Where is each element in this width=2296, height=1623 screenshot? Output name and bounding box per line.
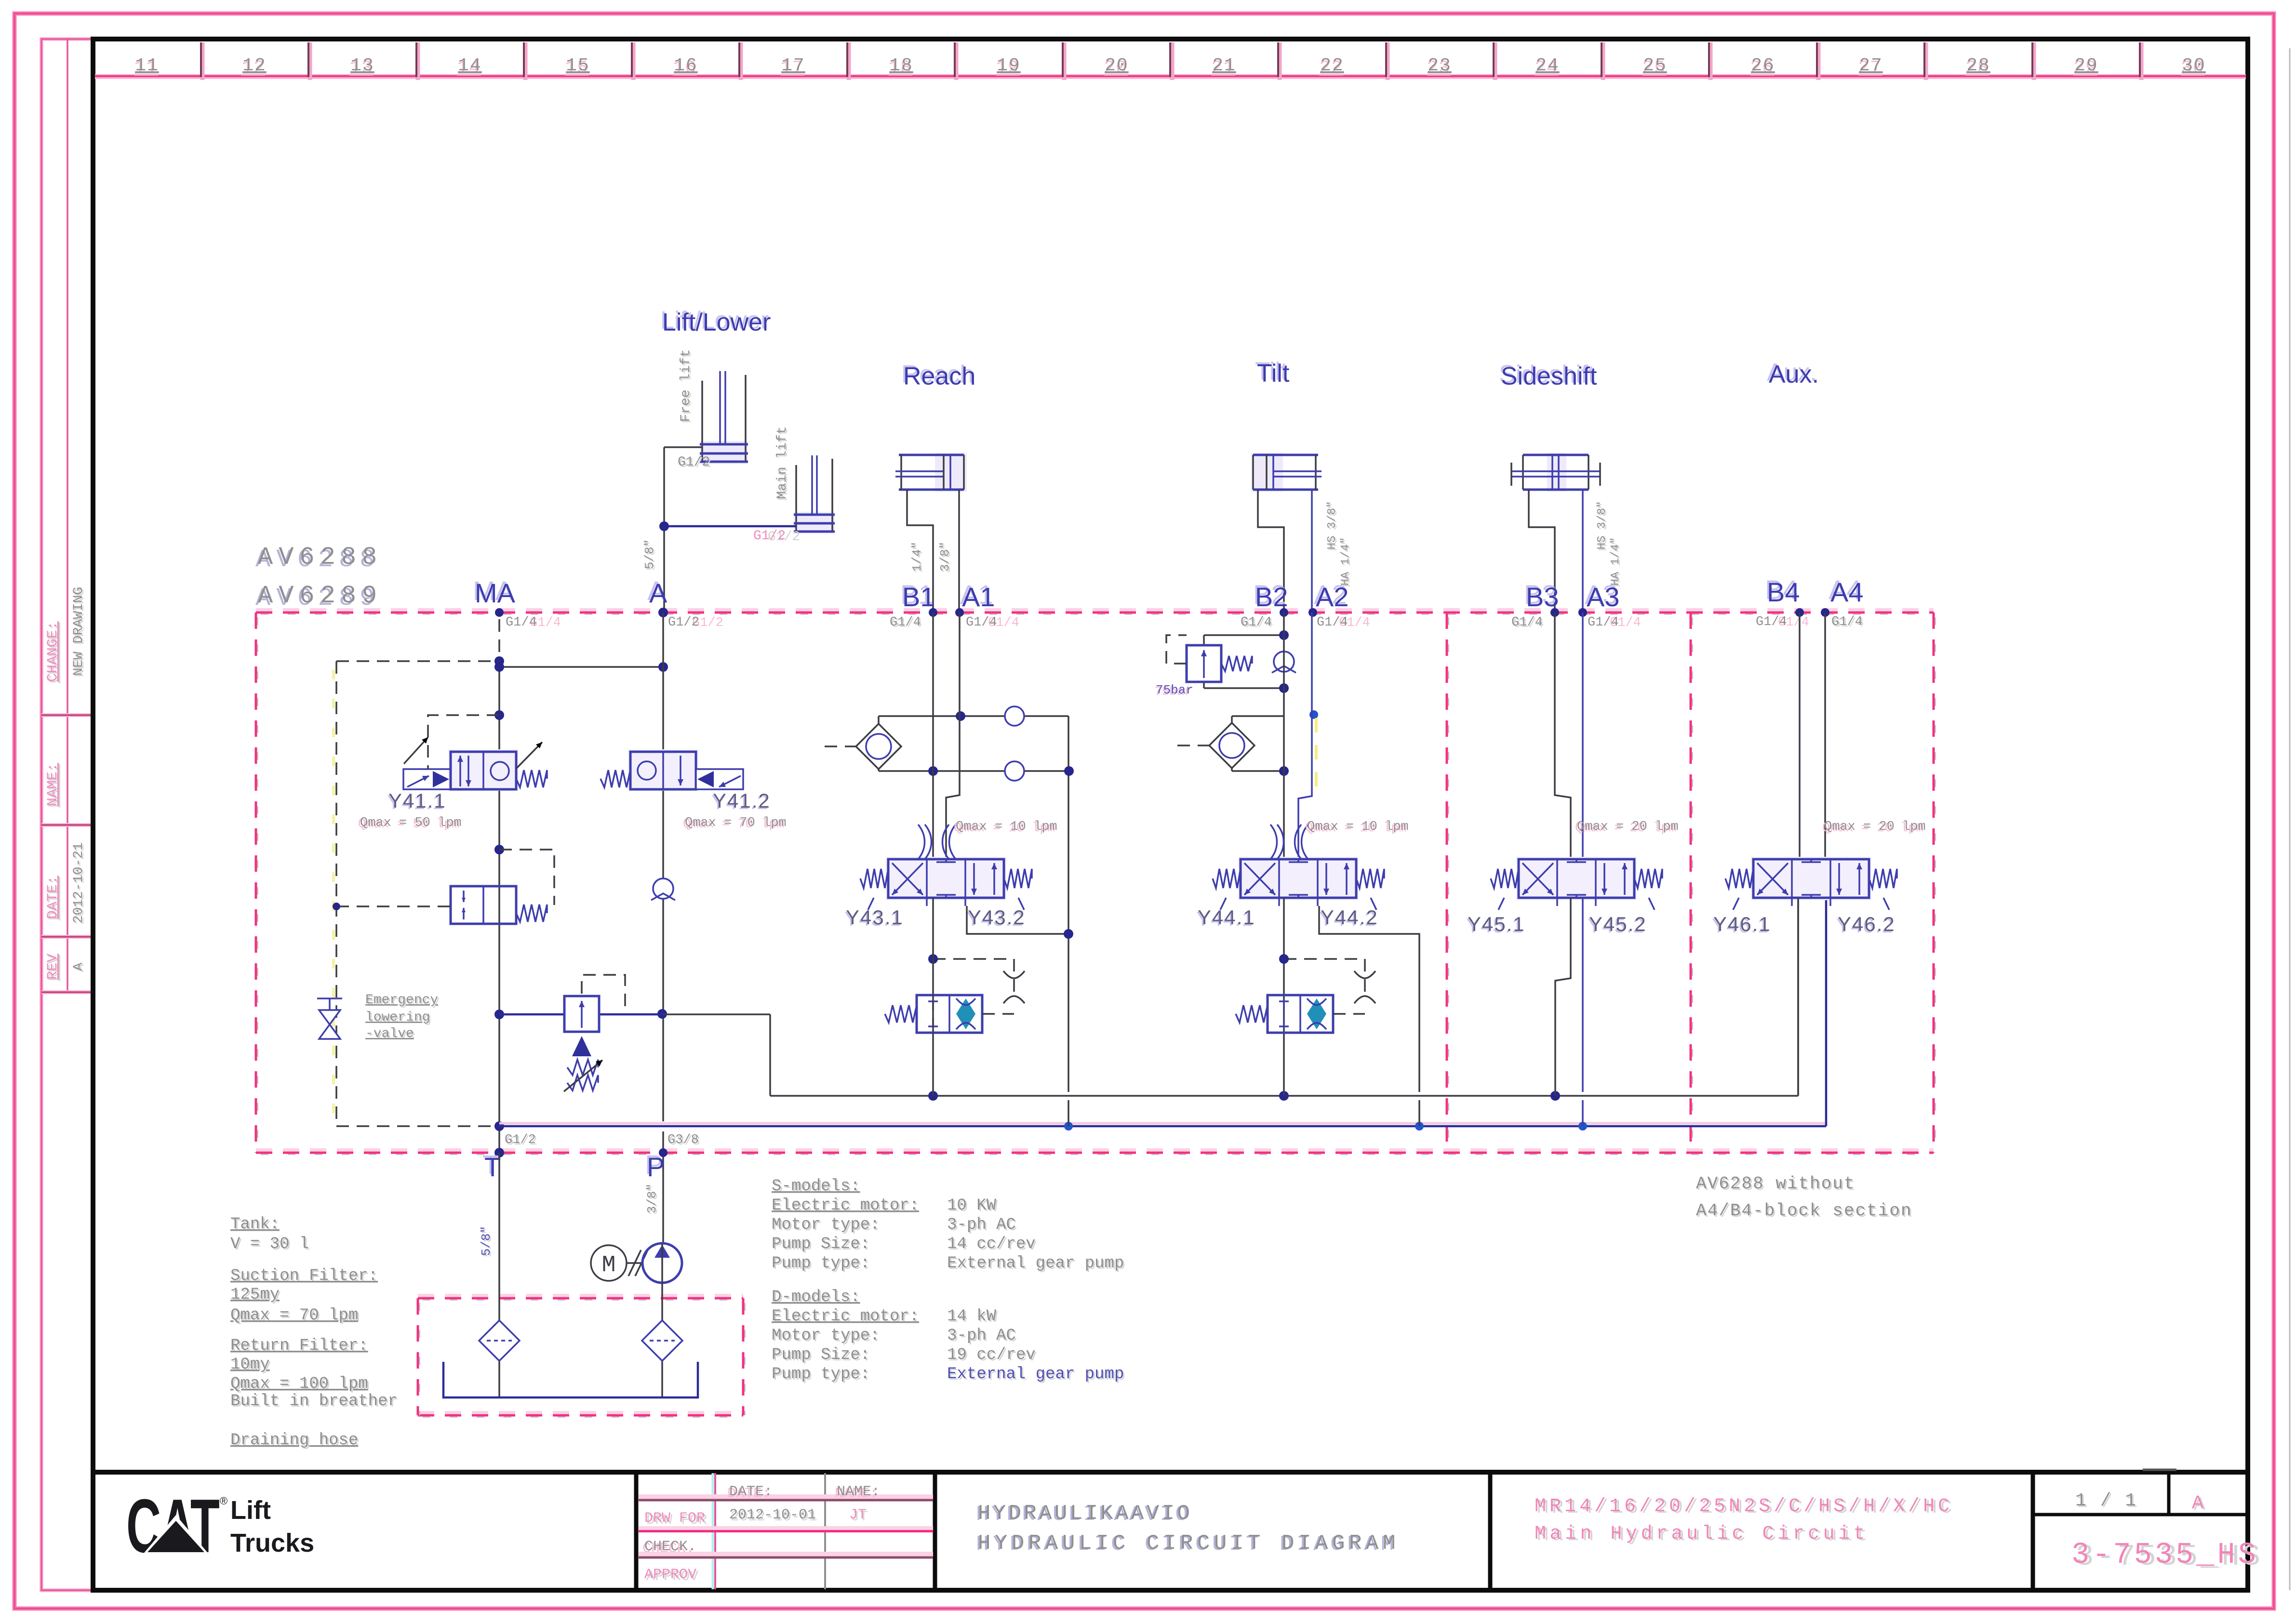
svg-text:JT: JT — [849, 1507, 867, 1523]
reach cylinder — [895, 453, 967, 492]
svg-text:Lift/Lower: Lift/Lower — [662, 308, 771, 336]
svg-text:Qmax = 20 lpm: Qmax = 20 lpm — [1577, 820, 1679, 834]
svg-text:28: 28 — [1966, 55, 1990, 76]
pressure compensator under Y41.1 — [451, 886, 547, 924]
svg-text:19 cc/rev: 19 cc/rev — [947, 1346, 1036, 1364]
svg-text:Pump Size:: Pump Size: — [772, 1235, 870, 1253]
emergency lowering valve (manual) — [317, 998, 342, 1039]
svg-text:26: 26 — [1751, 55, 1775, 76]
svg-text:APPROV: APPROV — [644, 1567, 696, 1583]
svg-text:B2: B2 — [1255, 582, 1288, 612]
sideshift cylinder (double rod) — [1511, 453, 1600, 492]
svg-text:21: 21 — [1212, 55, 1236, 76]
svg-text:G1/4: G1/4 — [506, 615, 537, 630]
title block table — [639, 1473, 933, 1589]
svg-text:3-7535_HS: 3-7535_HS — [2071, 1538, 2259, 1572]
tilt relief 75bar + check — [1166, 630, 1296, 693]
S-models spec text — [772, 1177, 1125, 1274]
svg-text:G1/2: G1/2 — [753, 529, 786, 544]
port thread labels G1/4 G1/2 row — [506, 615, 1864, 631]
svg-text:3/8": 3/8" — [938, 542, 952, 572]
svg-text:Sideshift: Sideshift — [1501, 362, 1597, 390]
reach bridge wires with orifices — [879, 706, 1074, 1126]
svg-text:5/8": 5/8" — [479, 1226, 494, 1256]
svg-text:14: 14 — [458, 55, 482, 76]
svg-text:Electric motor:: Electric motor: — [772, 1307, 919, 1326]
tilt bridge wires — [1232, 710, 1318, 776]
svg-text:3/8": 3/8" — [645, 1184, 659, 1213]
inner dashed box emergency lowering group — [334, 661, 499, 1126]
valve Y41.1 proportional lowering valve — [403, 737, 547, 791]
svg-text:Y43.1: Y43.1 — [846, 906, 904, 929]
electric motor M — [591, 1245, 627, 1281]
svg-text:A4: A4 — [1830, 577, 1864, 607]
svg-text:G3/8: G3/8 — [667, 1133, 699, 1147]
svg-text:Qmax = 20 lpm: Qmax = 20 lpm — [1824, 820, 1926, 834]
suction filter diamond — [479, 1320, 520, 1361]
svg-text:23: 23 — [1428, 55, 1452, 76]
wire MA riser / T line — [494, 608, 668, 1157]
svg-text:NEW DRAWING: NEW DRAWING — [71, 587, 86, 676]
wire B4 to valve — [1799, 612, 1801, 861]
tilt compensator pilot dashed + throttle — [1279, 954, 1375, 1014]
tilt cylinder — [1251, 453, 1322, 492]
tank symbol — [443, 1362, 698, 1397]
wire B4 valve to gallery (gallery end) — [1797, 898, 1799, 1096]
svg-text:Reach: Reach — [903, 362, 975, 390]
svg-text:NAME:: NAME: — [837, 1484, 880, 1500]
wire B3 valve to gallery — [1555, 898, 1571, 1096]
svg-text:A: A — [2192, 1493, 2203, 1515]
svg-text:A1: A1 — [962, 582, 995, 612]
svg-text:18: 18 — [889, 55, 913, 76]
svg-text:22: 22 — [1320, 55, 1344, 76]
title block frame — [93, 1470, 2248, 1590]
svg-text:3-ph AC: 3-ph AC — [947, 1327, 1016, 1345]
P line pump to tank — [661, 1283, 663, 1397]
svg-text:25: 25 — [1643, 55, 1667, 76]
svg-text:12: 12 — [242, 55, 267, 76]
svg-text:HYDRAULIC CIRCUIT DIAGRAM: HYDRAULIC CIRCUIT DIAGRAM — [978, 1531, 1400, 1556]
svg-text:®: ® — [220, 1495, 227, 1507]
svg-text:3-ph AC: 3-ph AC — [947, 1216, 1016, 1234]
wire B2 valve to gallery — [1283, 898, 1285, 1096]
svg-text:S-models:: S-models: — [772, 1177, 860, 1196]
D-models spec text — [772, 1288, 1125, 1385]
svg-text:2012-10-21: 2012-10-21 — [71, 842, 86, 923]
wire B1 to valve — [932, 612, 934, 861]
svg-text:B4: B4 — [1767, 577, 1800, 607]
svg-text:HA 1/4": HA 1/4" — [1339, 537, 1352, 586]
svg-text:30: 30 — [2182, 55, 2206, 76]
svg-text:T: T — [484, 1152, 501, 1182]
reach compensator pilot dashed + throttle — [928, 954, 1025, 1014]
svg-text:13: 13 — [350, 55, 374, 76]
svg-text:D-models:: D-models: — [772, 1288, 860, 1306]
tilt cylinder wires to B2 A2 — [1258, 490, 1312, 612]
svg-text:Qmax = 70 lpm: Qmax = 70 lpm — [685, 816, 787, 830]
svg-text:Trucks: Trucks — [230, 1529, 314, 1557]
wire A riser / P line — [657, 612, 667, 1243]
svg-text:NAME:: NAME: — [45, 763, 61, 806]
svg-text:G1/2: G1/2 — [505, 1133, 536, 1147]
wire A2 to valve — [1298, 612, 1312, 861]
T line into tank — [498, 1153, 500, 1397]
svg-text:Main lift: Main lift — [775, 426, 790, 499]
svg-text:11: 11 — [135, 55, 159, 76]
svg-text:External gear pump: External gear pump — [947, 1254, 1124, 1273]
valve Y46 aux directional valve — [1725, 857, 1897, 910]
svg-text:Y44.2: Y44.2 — [1321, 906, 1378, 929]
svg-text:15: 15 — [566, 55, 590, 76]
svg-text:HS 3/8": HS 3/8" — [1596, 501, 1609, 550]
svg-text:CHECK.: CHECK. — [644, 1539, 696, 1555]
svg-text:Built in breather: Built in breather — [230, 1392, 398, 1410]
svg-text:DATE:: DATE: — [729, 1484, 773, 1500]
svg-text:lowering: lowering — [365, 1010, 430, 1025]
svg-text:2012-10-01: 2012-10-01 — [729, 1507, 816, 1523]
svg-text:A4/B4-block section: A4/B4-block section — [1696, 1201, 1912, 1221]
reach valve drain to branch — [967, 906, 1068, 934]
svg-text:B3: B3 — [1526, 582, 1559, 612]
svg-text:Tank:: Tank: — [230, 1215, 280, 1234]
return filter diamond — [642, 1320, 682, 1361]
svg-text:B1: B1 — [902, 582, 935, 612]
svg-text:G1/4: G1/4 — [1756, 615, 1787, 629]
svg-text:HYDRAULIKAAVIO: HYDRAULIKAAVIO — [978, 1502, 1192, 1526]
svg-text:27: 27 — [1859, 55, 1883, 76]
svg-text:G1/4: G1/4 — [1241, 615, 1272, 630]
main relief valve — [499, 975, 770, 1096]
svg-text:A3: A3 — [1587, 582, 1620, 612]
valve Y41.2 solenoid bypass valve — [601, 749, 743, 791]
svg-text:24: 24 — [1535, 55, 1560, 76]
wire A3 to valve — [1582, 612, 1584, 861]
svg-text:Qmax = 70 lpm: Qmax = 70 lpm — [230, 1306, 358, 1325]
svg-text:Y44.1: Y44.1 — [1198, 906, 1255, 929]
svg-text:G1/4: G1/4 — [1317, 615, 1348, 630]
svg-text:G1/4: G1/4 — [1511, 615, 1543, 630]
svg-text:P: P — [647, 1152, 665, 1182]
svg-text:Y45.2: Y45.2 — [1589, 913, 1647, 935]
svg-text:Pump Size:: Pump Size: — [772, 1346, 870, 1364]
svg-text:Y46.1: Y46.1 — [1713, 913, 1771, 935]
svg-text:Free lift: Free lift — [679, 349, 694, 422]
svg-text:Pump type:: Pump type: — [772, 1365, 870, 1384]
svg-text:AV6288 without: AV6288 without — [1696, 1174, 1855, 1194]
reach compensator valve — [885, 995, 982, 1033]
svg-text:CHANGE:: CHANGE: — [45, 621, 61, 682]
svg-text:A: A — [71, 962, 86, 971]
svg-text:17: 17 — [781, 55, 805, 76]
free lift cylinder — [700, 371, 748, 464]
svg-text:Y41.1: Y41.1 — [388, 789, 446, 812]
svg-text:Qmax = 100 lpm: Qmax = 100 lpm — [230, 1375, 368, 1393]
compensator pilot dashed lines — [499, 850, 554, 905]
svg-text:External gear pump: External gear pump — [947, 1365, 1124, 1384]
svg-text:10 KW: 10 KW — [947, 1197, 997, 1215]
svg-text:Main Hydraulic Circuit: Main Hydraulic Circuit — [1535, 1523, 1869, 1545]
valve block dashed boundary box — [256, 610, 1935, 1154]
svg-text:Aux.: Aux. — [1769, 360, 1819, 388]
Y41.1 pilot dashed line — [428, 715, 499, 769]
valve Y45 sideshift directional valve — [1491, 857, 1662, 910]
main lift cylinder — [794, 455, 835, 533]
svg-text:20: 20 — [1105, 55, 1129, 76]
svg-text:1 / 1: 1 / 1 — [2075, 1490, 2137, 1511]
CAT Lift Trucks logo — [126, 1484, 314, 1569]
svg-text:Y43.2: Y43.2 — [968, 906, 1026, 929]
svg-text:Return Filter:: Return Filter: — [230, 1337, 368, 1355]
svg-text:M: M — [602, 1252, 616, 1278]
svg-text:HA 1/4": HA 1/4" — [1609, 537, 1622, 586]
tilt valve drain branch — [1319, 906, 1419, 1092]
svg-text:DRW FOR: DRW FOR — [644, 1510, 705, 1527]
svg-text:14 cc/rev: 14 cc/rev — [947, 1235, 1036, 1253]
svg-text:16: 16 — [674, 55, 698, 76]
check valve on P riser — [651, 878, 675, 900]
svg-text:Qmax = 10 lpm: Qmax = 10 lpm — [956, 820, 1057, 834]
pressure gallery (black) — [770, 899, 1798, 1101]
svg-text:Lift: Lift — [230, 1496, 271, 1525]
tank dashed boundary box — [418, 1295, 745, 1417]
svg-text:1/4": 1/4" — [910, 542, 924, 572]
svg-text:A2: A2 — [1316, 582, 1349, 612]
dashed divider before Aux section (AV6288 limit) — [1691, 612, 1693, 1153]
wire A3 valve to tank gallery — [1582, 898, 1584, 1092]
svg-text:Qmax = 10 lpm: Qmax = 10 lpm — [1307, 820, 1409, 834]
svg-text:5/8": 5/8" — [642, 539, 657, 569]
svg-text:125my: 125my — [230, 1286, 280, 1304]
svg-text:10my: 10my — [230, 1356, 270, 1374]
svg-text:Qmax = 50 lpm: Qmax = 50 lpm — [360, 816, 462, 830]
svg-text:Motor type:: Motor type: — [772, 1216, 880, 1234]
svg-text:MR14/16/20/25N2S/C/HS/H/X/HC: MR14/16/20/25N2S/C/HS/H/X/HC — [1535, 1496, 1953, 1517]
svg-text:G1/4: G1/4 — [1588, 615, 1619, 630]
svg-text:G1/2: G1/2 — [668, 615, 699, 630]
svg-text:G1/2: G1/2 — [678, 455, 710, 470]
wire B3 to valve — [1555, 612, 1571, 861]
svg-text:Suction Filter:: Suction Filter: — [230, 1267, 378, 1285]
svg-text:A: A — [649, 578, 667, 608]
svg-text:Y46.2: Y46.2 — [1838, 913, 1896, 935]
svg-text:-valve: -valve — [365, 1026, 414, 1041]
svg-text:Emergency: Emergency — [365, 993, 438, 1008]
svg-text:29: 29 — [2074, 55, 2098, 76]
ruler band with column numbers 11-30 — [95, 42, 2246, 80]
port dots on boundary — [495, 608, 1829, 617]
svg-text:Y45.1: Y45.1 — [1468, 913, 1525, 935]
svg-text:G1/4: G1/4 — [966, 615, 997, 630]
valve Y43 reach directional valve — [860, 825, 1032, 910]
sidebar revision column — [41, 39, 93, 1590]
svg-text:Tilt: Tilt — [1257, 359, 1290, 387]
dashed divider before Sideshift section — [1447, 612, 1449, 1153]
reach cylinder wires to B1 A1 — [907, 490, 959, 612]
reach check valve diamond — [825, 724, 901, 769]
svg-text:AV6288: AV6288 — [258, 543, 383, 572]
coupling shaft — [627, 1250, 648, 1276]
tank gallery (blue) — [499, 899, 1826, 1131]
tilt check valve diamond — [1177, 723, 1255, 768]
tilt compensator valve — [1236, 995, 1333, 1033]
svg-text:G1/4: G1/4 — [890, 615, 921, 630]
svg-text:V = 30 l: V = 30 l — [230, 1235, 309, 1253]
svg-text:HS 3/8": HS 3/8" — [1326, 501, 1339, 550]
wire B2 to valve — [1283, 612, 1285, 861]
svg-text:DATE:: DATE: — [45, 876, 61, 919]
wire A1 to valve — [946, 612, 960, 861]
svg-text:19: 19 — [997, 55, 1021, 76]
svg-text:G1/4: G1/4 — [1831, 615, 1863, 629]
valve Y44 tilt directional valve — [1213, 825, 1384, 910]
svg-text:MA: MA — [475, 578, 516, 608]
wire B1 valve to gallery — [932, 898, 934, 1096]
svg-text:Y41.2: Y41.2 — [713, 789, 771, 812]
svg-text:Pump type:: Pump type: — [772, 1254, 870, 1273]
svg-text:Electric motor:: Electric motor: — [772, 1197, 919, 1215]
sideshift cylinder wires to B3 A3 — [1529, 490, 1583, 612]
lift circuit wires — [659, 447, 796, 612]
svg-text:Draining hose: Draining hose — [230, 1431, 358, 1450]
svg-text:AV6289: AV6289 — [258, 582, 383, 610]
svg-text:75bar: 75bar — [1156, 683, 1193, 697]
hydraulic pump — [642, 1243, 682, 1283]
svg-text:Motor type:: Motor type: — [772, 1327, 880, 1345]
svg-text:REV: REV — [45, 954, 61, 980]
svg-text:14 kW: 14 kW — [947, 1307, 997, 1326]
tank notes text — [230, 1215, 399, 1451]
wire A4 to valve — [1824, 612, 1826, 861]
